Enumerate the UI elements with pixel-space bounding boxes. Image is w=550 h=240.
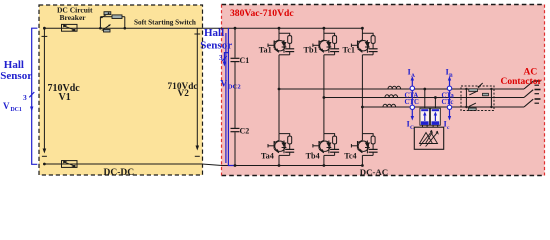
DC-AC block top dashed border <box>222 4 545 6</box>
svg-text:3: 3 <box>23 93 27 102</box>
IGBT Tb4 <box>313 134 339 167</box>
phase C wire <box>362 106 524 108</box>
hall sensor V_DC1 (blue) <box>29 28 37 164</box>
svg-text:V: V <box>220 80 227 90</box>
svg-text:Tc4: Tc4 <box>344 152 356 161</box>
AC contactor contact phase B <box>524 90 533 98</box>
svg-text:Tb4: Tb4 <box>306 152 320 161</box>
load box <box>414 127 443 149</box>
inductor phase A <box>388 86 401 89</box>
current sensor column 1 <box>411 79 413 117</box>
svg-text:C: C <box>410 125 414 131</box>
AC contactor contact phase A <box>524 81 533 89</box>
soft starting switch symbol <box>100 13 124 31</box>
node phase b <box>323 96 326 99</box>
svg-text:V2: V2 <box>178 89 190 99</box>
bottom blade <box>469 103 476 107</box>
bypass resistor mid <box>483 93 489 96</box>
AC soft-start dashed box <box>461 86 494 111</box>
leg a vertical wire <box>278 55 280 134</box>
leg c vertical wire <box>361 55 363 134</box>
svg-text:DC1: DC1 <box>11 107 22 113</box>
bottom DC wire (negative bus) <box>44 164 362 166</box>
inductor phase C <box>383 104 396 107</box>
svg-text:V1: V1 <box>59 92 71 103</box>
svg-text:CTc: CTc <box>442 99 454 106</box>
node left terminal <box>43 27 46 30</box>
svg-text:V: V <box>3 101 10 111</box>
svg-text:Breaker: Breaker <box>60 13 87 22</box>
top DC wire (positive bus) <box>44 27 362 29</box>
CT circle phase C col2 <box>447 105 451 109</box>
bypass switch blade mid <box>469 91 476 95</box>
drop wire phase B to sensor 2 <box>434 98 436 109</box>
svg-text:3: 3 <box>219 54 223 62</box>
svg-text:C1: C1 <box>240 56 250 65</box>
drop wire phase A to sensor 1 <box>424 89 426 108</box>
voltage sensor 1 <box>420 108 430 127</box>
node bottom-left <box>43 163 46 166</box>
CT circle phase A col2 <box>447 86 451 90</box>
DC link vertical wire <box>234 28 236 58</box>
svg-text:Ta4: Ta4 <box>261 152 274 161</box>
load symbol triangles with arrows <box>420 132 438 147</box>
riser left <box>465 89 467 107</box>
capacitor C2 <box>231 127 240 129</box>
CT circle phase C <box>410 105 414 109</box>
svg-text:Ta1: Ta1 <box>259 45 272 54</box>
IGBT Tc1 <box>351 27 377 55</box>
phase B wire <box>324 97 524 99</box>
soft start resistor <box>112 15 122 19</box>
svg-text:A: A <box>411 73 415 79</box>
hall sensor V_DC2 (blue) <box>222 28 235 166</box>
IGBT Tc4 <box>351 134 377 167</box>
AC contactor contact phase C <box>524 99 533 107</box>
DC-DC converter block background <box>39 5 203 175</box>
svg-text:Contactor: Contactor <box>501 77 543 87</box>
current sensor column 2 <box>449 79 451 117</box>
soft start main contact pad <box>104 29 111 32</box>
svg-text:Hall: Hall <box>204 27 224 39</box>
voltage arrow V2 <box>194 28 200 156</box>
DC circuit breaker bottom symbol <box>62 161 78 168</box>
IGBT Ta1 <box>268 27 294 55</box>
svg-text:Sensor: Sensor <box>200 40 232 52</box>
svg-text:Sensor: Sensor <box>0 70 32 82</box>
svg-text:CTC: CTC <box>405 99 419 106</box>
DC-AC inverter block background <box>222 5 545 176</box>
svg-text:380Vac-710Vdc: 380Vac-710Vdc <box>230 8 294 19</box>
DC-AC block bottom dashed border <box>222 175 545 177</box>
IGBT Ta4 <box>268 134 294 167</box>
svg-text:C2: C2 <box>240 127 250 136</box>
svg-text:B: B <box>449 73 453 79</box>
capacitor C1 <box>231 57 240 59</box>
node phase a <box>278 88 281 91</box>
bottom resistor pad <box>468 108 476 110</box>
DC-AC block left red dashed border <box>221 5 223 176</box>
svg-text:Tc1: Tc1 <box>343 45 355 54</box>
IGBT Tb1 <box>313 27 339 55</box>
riser right <box>490 89 492 107</box>
svg-text:DC-AC: DC-AC <box>360 167 388 177</box>
DC-AC block right red dashed border <box>544 5 546 176</box>
DC circuit breaker top symbol <box>62 24 78 31</box>
leg b vertical wire <box>323 55 325 134</box>
bypass resistor top <box>469 89 478 92</box>
phase A wire <box>279 88 524 90</box>
DC-DC block dashed border <box>39 5 203 175</box>
svg-text:Soft Starting Switch: Soft Starting Switch <box>134 18 196 26</box>
svg-text:Tb1: Tb1 <box>304 45 318 54</box>
inductor phase B <box>385 95 398 98</box>
svg-text:DC-DC: DC-DC <box>104 168 135 178</box>
CT circle phase A <box>410 86 414 90</box>
node phase c <box>361 106 364 109</box>
voltage sensor 2 <box>430 108 440 127</box>
switch above box <box>479 83 483 87</box>
voltage arrow V1 <box>42 29 48 156</box>
